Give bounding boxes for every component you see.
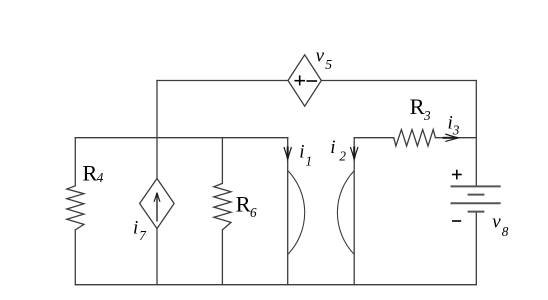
wire R6 branch upper (mid rail to R6) — [221, 138, 223, 184]
resistor R6 zigzag — [214, 183, 231, 230]
i7 arrow inside (pointing up) — [154, 193, 160, 222]
battery V8 plate long bottom — [451, 202, 501, 204]
wire R6 branch lower (R6 to bottom rail) — [221, 230, 223, 285]
wire R3 right to right rail — [435, 137, 476, 139]
wire left rail lower (R4 to bottom rail) — [74, 230, 76, 285]
battery V8 plate short bottom — [468, 211, 485, 213]
svg-text:1: 1 — [306, 153, 313, 168]
svg-text:3: 3 — [452, 123, 460, 138]
wire i7 branch upper (top wire corner down to i7 source) — [156, 81, 158, 179]
svg-text:7: 7 — [139, 228, 147, 243]
svg-text:R: R — [236, 192, 251, 217]
current arrow i3 (rightward on R3 wire) — [443, 134, 459, 141]
wire bottom rail — [75, 284, 476, 286]
svg-text:4: 4 — [97, 170, 104, 185]
battery V8 plate short mid — [468, 194, 485, 196]
wire i7 branch lower (i7 source to bottom rail) — [156, 229, 158, 285]
wire right rail lower (battery to bottom rail) — [475, 212, 477, 285]
svg-text:5: 5 — [325, 57, 332, 72]
svg-text:i: i — [133, 218, 138, 239]
svg-text:6: 6 — [250, 205, 257, 220]
wire i2 node to R3 left — [354, 137, 394, 139]
v5 minus sign — [306, 80, 317, 82]
wire middle rail (left rail to i1 branch) — [75, 137, 287, 139]
resistor R4 zigzag — [67, 186, 84, 230]
element arc on i1 branch (bulge right) — [288, 171, 305, 255]
v5 plus sign — [295, 75, 306, 85]
svg-text:i: i — [330, 137, 335, 158]
wire i1 branch vertical — [287, 138, 289, 285]
wire i2 branch vertical — [353, 138, 355, 285]
svg-text:v: v — [316, 46, 325, 67]
svg-text:R: R — [82, 161, 97, 186]
current arrow i1 (down, on i1 branch) — [284, 147, 292, 160]
wire top-right horizontal (v5 right to right rail) — [321, 80, 476, 82]
current arrow i2 (down, on i2 branch) — [350, 147, 358, 160]
svg-text:v: v — [492, 212, 501, 233]
battery minus sign — [452, 220, 461, 222]
wire top-left horizontal (node to v5 left) — [157, 80, 288, 82]
svg-text:3: 3 — [423, 108, 431, 123]
dependent voltage source V5 diamond — [288, 55, 321, 106]
dependent current source i7 diamond — [140, 179, 175, 229]
svg-text:i: i — [299, 142, 304, 163]
svg-text:2: 2 — [339, 149, 346, 164]
svg-text:R: R — [410, 94, 425, 119]
wire left rail upper (mid rail to R4) — [74, 138, 76, 186]
battery V8 plate long top — [451, 185, 501, 187]
wire right rail upper (top wire to battery) — [475, 81, 477, 187]
element arc on i2 branch (bulge left) — [337, 171, 354, 255]
svg-text:8: 8 — [502, 224, 509, 239]
resistor R3 zigzag — [394, 130, 436, 146]
battery plus sign — [452, 170, 462, 180]
